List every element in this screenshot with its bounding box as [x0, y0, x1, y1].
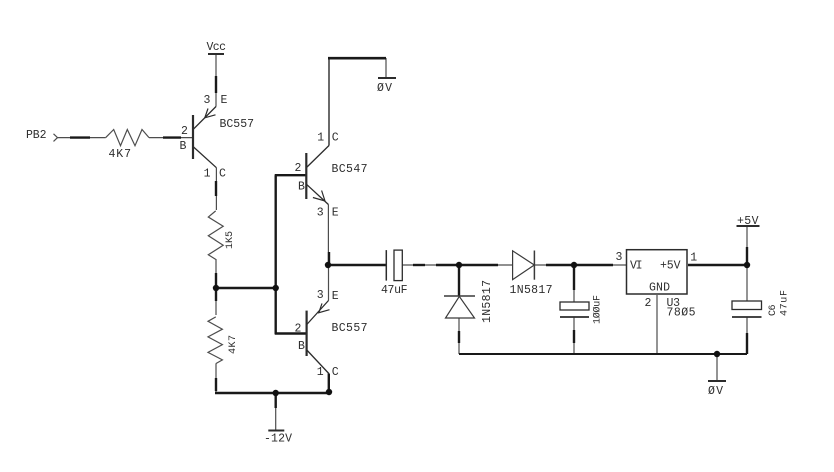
svg-text:+5V: +5V [660, 260, 681, 273]
svg-text:C: C [332, 132, 339, 145]
svg-text:ØV: ØV [708, 385, 723, 398]
svg-text:1: 1 [317, 366, 324, 379]
svg-text:1: 1 [204, 168, 211, 181]
svg-text:GND: GND [649, 282, 670, 295]
svg-text:B: B [298, 340, 305, 353]
svg-text:2: 2 [295, 323, 302, 336]
svg-text:BC547: BC547 [332, 163, 368, 176]
svg-text:4K7: 4K7 [228, 335, 239, 354]
svg-text:C6: C6 [768, 305, 779, 317]
svg-text:47uF: 47uF [780, 290, 791, 316]
svg-text:-12V: -12V [264, 433, 292, 446]
svg-text:3: 3 [204, 94, 211, 107]
svg-text:PB2: PB2 [26, 129, 47, 142]
svg-text:E: E [332, 207, 339, 220]
svg-text:1ØØuF: 1ØØuF [592, 295, 604, 324]
svg-text:2: 2 [181, 125, 188, 138]
svg-text:Vcc: Vcc [207, 41, 227, 54]
svg-text:3: 3 [317, 207, 324, 220]
svg-text:1N5817: 1N5817 [481, 280, 494, 323]
svg-text:3: 3 [317, 289, 324, 302]
svg-text:78Ø5: 78Ø5 [667, 307, 696, 320]
svg-text:VI: VI [630, 260, 643, 273]
svg-text:BC557: BC557 [220, 118, 255, 131]
svg-text:1: 1 [317, 132, 324, 145]
svg-text:C: C [332, 366, 339, 379]
svg-text:B: B [298, 181, 305, 194]
svg-text:1: 1 [690, 252, 697, 265]
svg-text:1K5: 1K5 [225, 231, 236, 249]
svg-text:B: B [180, 140, 187, 153]
svg-text:E: E [221, 94, 228, 107]
svg-text:2: 2 [645, 297, 652, 310]
svg-text:C: C [219, 168, 226, 181]
svg-text:BC557: BC557 [332, 322, 368, 335]
svg-text:3: 3 [616, 251, 623, 264]
svg-text:4K7: 4K7 [109, 148, 132, 161]
svg-text:+5V: +5V [737, 215, 759, 228]
svg-text:ØV: ØV [377, 82, 392, 95]
svg-text:1N5817: 1N5817 [510, 284, 553, 297]
svg-text:2: 2 [295, 162, 302, 175]
svg-text:47uF: 47uF [381, 284, 408, 297]
svg-text:E: E [332, 290, 339, 303]
